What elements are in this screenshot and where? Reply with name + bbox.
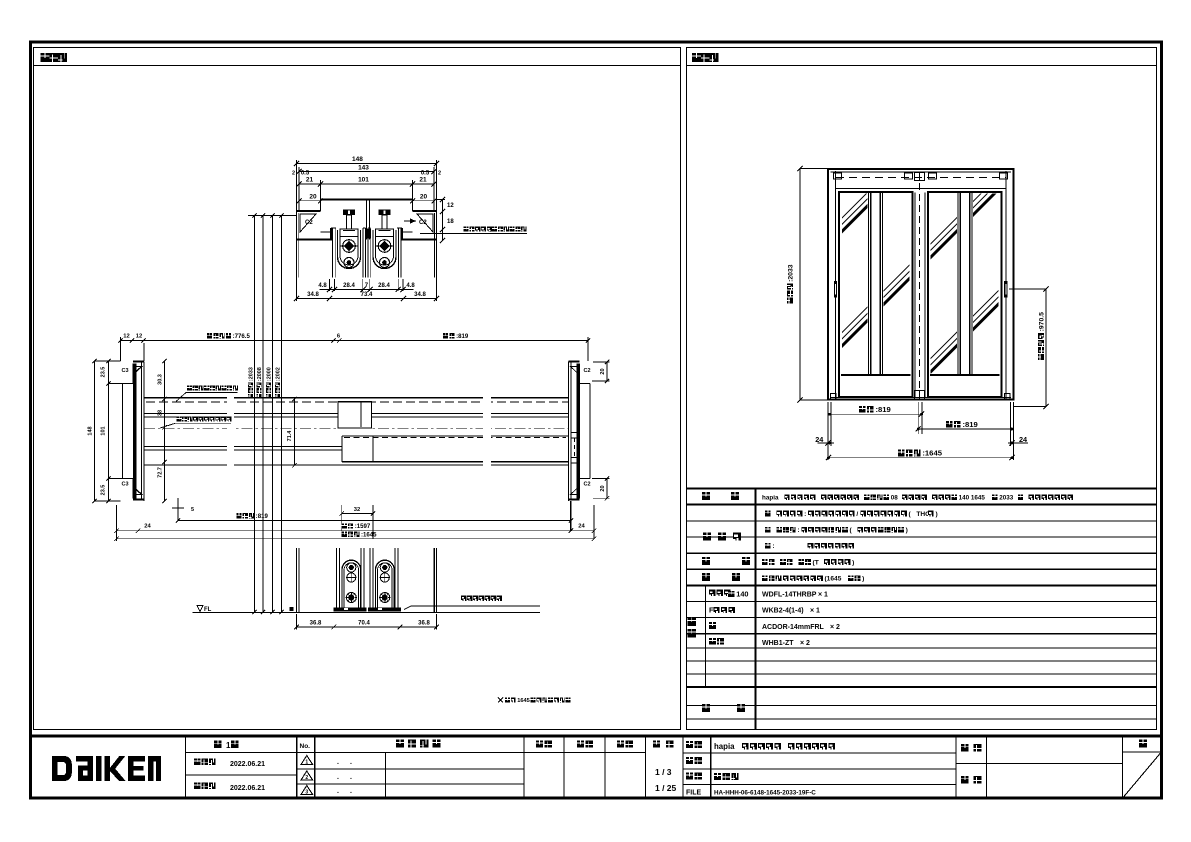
svg-text:C2: C2 bbox=[419, 220, 427, 226]
svg-text:WDFL-14THRBP: WDFL-14THRBP bbox=[762, 592, 817, 599]
svg-text:20: 20 bbox=[600, 485, 606, 491]
svg-text:21: 21 bbox=[306, 177, 314, 184]
svg-text:× 2: × 2 bbox=[830, 624, 840, 631]
svg-text:2022.06.21: 2022.06.21 bbox=[230, 761, 265, 768]
svg-text:23.5: 23.5 bbox=[101, 367, 107, 378]
svg-text:71.4: 71.4 bbox=[287, 430, 293, 442]
svg-text::2002: :2002 bbox=[275, 367, 281, 381]
svg-text:20: 20 bbox=[309, 194, 317, 201]
svg-text:): ) bbox=[862, 576, 864, 583]
svg-text:28.4: 28.4 bbox=[343, 283, 355, 289]
svg-text:101: 101 bbox=[101, 426, 107, 435]
svg-text:1 / 25: 1 / 25 bbox=[655, 783, 677, 793]
svg-text:73.4: 73.4 bbox=[361, 292, 373, 298]
svg-text:72.7: 72.7 bbox=[158, 467, 164, 478]
svg-text:4.8: 4.8 bbox=[406, 283, 415, 289]
svg-text:24: 24 bbox=[1019, 435, 1028, 444]
svg-text:38: 38 bbox=[158, 410, 164, 416]
svg-text:No.: No. bbox=[300, 743, 311, 750]
svg-text:): ) bbox=[906, 527, 908, 534]
svg-text:21: 21 bbox=[419, 177, 427, 184]
svg-text:3: 3 bbox=[305, 790, 308, 796]
svg-text:C2: C2 bbox=[584, 482, 591, 488]
svg-text:hapia: hapia bbox=[714, 742, 735, 751]
svg-text:140: 140 bbox=[736, 590, 748, 599]
svg-text:24: 24 bbox=[815, 435, 824, 444]
svg-text::1645: :1645 bbox=[361, 532, 377, 539]
svg-text:HA-HHH-06-6148-1645-2033-19F-C: HA-HHH-06-6148-1645-2033-19F-C bbox=[714, 790, 816, 797]
svg-text::819: :819 bbox=[256, 513, 269, 520]
svg-text:WHB1-ZT: WHB1-ZT bbox=[762, 640, 794, 647]
svg-text:× 2: × 2 bbox=[800, 640, 810, 647]
svg-text:36.8: 36.8 bbox=[418, 621, 430, 627]
svg-text::2033: :2033 bbox=[787, 264, 794, 282]
svg-text:70.4: 70.4 bbox=[358, 621, 370, 627]
svg-text:23.5: 23.5 bbox=[101, 485, 107, 496]
svg-text:148: 148 bbox=[88, 426, 94, 435]
svg-text:C3: C3 bbox=[122, 368, 129, 374]
svg-text:C3: C3 bbox=[122, 482, 129, 488]
svg-text:C2: C2 bbox=[584, 368, 591, 374]
svg-text:12: 12 bbox=[136, 334, 142, 340]
svg-text:F: F bbox=[709, 606, 714, 615]
svg-text:× 1: × 1 bbox=[810, 608, 820, 615]
svg-text:20: 20 bbox=[420, 194, 428, 201]
svg-text:20: 20 bbox=[600, 368, 606, 374]
svg-text:(1645: (1645 bbox=[824, 576, 841, 583]
svg-text:148: 148 bbox=[352, 156, 363, 163]
svg-text:1: 1 bbox=[226, 741, 231, 750]
svg-text:2033: 2033 bbox=[999, 495, 1014, 502]
svg-text::2008: :2008 bbox=[257, 367, 263, 381]
svg-text:/: / bbox=[856, 511, 858, 518]
svg-text:143: 143 bbox=[358, 165, 369, 172]
svg-text:4.8: 4.8 bbox=[318, 283, 327, 289]
svg-text:.: . bbox=[350, 759, 352, 766]
svg-text:24: 24 bbox=[144, 524, 151, 530]
svg-text:hapia: hapia bbox=[762, 495, 779, 502]
svg-text:18: 18 bbox=[447, 219, 454, 225]
svg-text::2033: :2033 bbox=[248, 367, 254, 381]
svg-text:12: 12 bbox=[447, 203, 454, 209]
svg-text::2000: :2000 bbox=[266, 367, 272, 381]
svg-text:34.8: 34.8 bbox=[307, 292, 319, 298]
svg-text:2022.06.21: 2022.06.21 bbox=[230, 785, 265, 792]
svg-text:1645: 1645 bbox=[517, 698, 530, 704]
svg-text::819: :819 bbox=[456, 333, 469, 340]
svg-text:2: 2 bbox=[305, 775, 308, 781]
svg-text:1: 1 bbox=[305, 760, 308, 766]
svg-text:30.3: 30.3 bbox=[158, 374, 164, 385]
svg-text:28.4: 28.4 bbox=[378, 283, 390, 289]
svg-text:2: 2 bbox=[292, 171, 295, 177]
svg-text::776.5: :776.5 bbox=[233, 333, 251, 340]
svg-text:24: 24 bbox=[578, 524, 585, 530]
svg-text:5: 5 bbox=[191, 507, 194, 513]
svg-text:08: 08 bbox=[891, 495, 899, 502]
svg-text:.: . bbox=[350, 774, 352, 781]
svg-text:FILE: FILE bbox=[686, 790, 701, 797]
svg-text:× 1: × 1 bbox=[818, 592, 828, 599]
svg-text::: : bbox=[804, 511, 806, 518]
svg-text:34.8: 34.8 bbox=[414, 292, 426, 298]
svg-text:101: 101 bbox=[358, 177, 369, 184]
svg-text:.: . bbox=[337, 788, 339, 795]
svg-text:140 1645: 140 1645 bbox=[959, 495, 986, 502]
svg-text::: : bbox=[797, 527, 799, 534]
svg-text:.: . bbox=[337, 759, 339, 766]
svg-text::: : bbox=[489, 228, 491, 234]
svg-text::: : bbox=[772, 543, 774, 550]
svg-text:ACDOR-14mmFRL: ACDOR-14mmFRL bbox=[762, 624, 825, 631]
svg-text:36.8: 36.8 bbox=[310, 621, 322, 627]
svg-text::819: :819 bbox=[875, 405, 890, 414]
svg-text:): ) bbox=[935, 511, 937, 518]
svg-text:1 / 3: 1 / 3 bbox=[655, 767, 672, 777]
svg-text:(T: (T bbox=[813, 559, 819, 566]
svg-text:32: 32 bbox=[354, 507, 360, 513]
svg-text:12: 12 bbox=[123, 334, 129, 340]
svg-text::819: :819 bbox=[962, 420, 977, 429]
svg-text:WKB2-4(1-4): WKB2-4(1-4) bbox=[762, 608, 804, 615]
svg-text:): ) bbox=[852, 559, 854, 566]
svg-text:.: . bbox=[337, 774, 339, 781]
svg-text:.: . bbox=[350, 788, 352, 795]
svg-text::1597: :1597 bbox=[355, 523, 371, 530]
svg-text::970.5: :970.5 bbox=[1038, 312, 1045, 332]
svg-text:C2: C2 bbox=[305, 220, 313, 226]
svg-text::1645: :1645 bbox=[922, 449, 942, 458]
svg-text:2: 2 bbox=[438, 171, 441, 177]
